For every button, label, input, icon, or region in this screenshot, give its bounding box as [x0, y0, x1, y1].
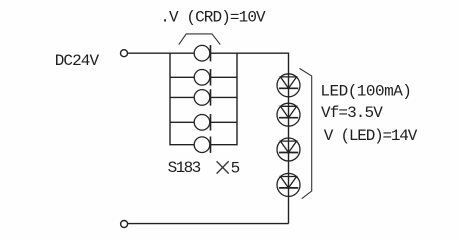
- label x5: [217, 161, 229, 173]
- wire input to ladder: [128, 52, 170, 54]
- svg-text:DC24V: DC24V: [55, 52, 100, 70]
- wire ladder right rail: [236, 53, 238, 146]
- CRD D5: [194, 137, 210, 153]
- brace right of LED string: [300, 68, 312, 198]
- svg-text:.V (CRD)=10V: .V (CRD)=10V: [160, 9, 266, 27]
- LED D7: [277, 103, 300, 126]
- CRD D2: [194, 70, 210, 86]
- wire LED column: [288, 74, 290, 224]
- wire bottom return: [128, 223, 289, 225]
- CRD D4: [194, 115, 210, 131]
- wire rung 2: [170, 76, 237, 78]
- LED D6: [277, 74, 300, 97]
- LED D9: [277, 173, 300, 196]
- svg-text:5: 5: [231, 159, 241, 177]
- LED D8: [277, 138, 300, 161]
- wire ladder left rail: [169, 53, 171, 146]
- svg-text:V (LED)=14V: V (LED)=14V: [324, 127, 418, 145]
- terminal bottom-left: [121, 221, 128, 228]
- wire rung 3: [170, 96, 237, 98]
- wire rung 4: [170, 121, 237, 123]
- CRD D1: [194, 45, 210, 61]
- svg-text:S183: S183: [168, 159, 201, 177]
- wire top to LED string: [237, 53, 289, 74]
- brace over CRD1: [179, 34, 221, 45]
- terminal top-left: [121, 50, 128, 57]
- wire rung 5: [170, 144, 237, 146]
- wire rung 1: [170, 52, 237, 54]
- svg-text:Vf=3.5V: Vf=3.5V: [321, 104, 383, 122]
- svg-text:LED(100mA): LED(100mA): [320, 83, 411, 101]
- CRD D3: [194, 90, 210, 106]
